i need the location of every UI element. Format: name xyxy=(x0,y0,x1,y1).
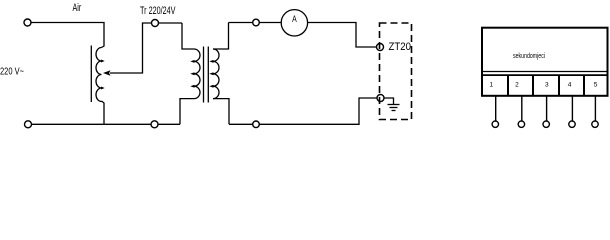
terminal input top xyxy=(24,19,31,26)
terminal cell divider 4|5 xyxy=(583,75,585,96)
stopwatch divider xyxy=(482,71,608,73)
svg-text:2: 2 xyxy=(515,82,519,89)
terminal ZT20 ground xyxy=(377,95,384,102)
terminal secondary bottom xyxy=(253,121,260,128)
svg-text:sekundomjeci: sekundomjeci xyxy=(513,51,545,60)
terminal ZT20 input xyxy=(377,44,384,51)
ZT20 dashed box xyxy=(380,23,412,120)
terminal input bottom xyxy=(25,121,32,128)
transformer Tr primary bottom lead xyxy=(180,99,194,125)
terminal cell divider 1|2 xyxy=(507,75,509,96)
winding cusp curls variac xyxy=(101,60,105,90)
wire ammeter to ZT20 input xyxy=(308,23,377,48)
stem terminal 5 xyxy=(594,96,596,121)
svg-text:Air: Air xyxy=(73,2,82,14)
variac T1 winding xyxy=(96,48,102,102)
ammeter A xyxy=(281,10,307,36)
wire secondary bottom rail xyxy=(229,98,377,124)
winding cusp curls primary xyxy=(190,60,194,88)
transformer Tr secondary winding xyxy=(213,49,219,99)
svg-text:5: 5 xyxy=(594,82,598,89)
wiper arrow head xyxy=(103,70,111,76)
wire secondary top to ammeter xyxy=(229,22,282,24)
stem terminal 1 xyxy=(495,96,497,121)
svg-text:Tr 220/24V: Tr 220/24V xyxy=(140,5,176,17)
variac T1 core xyxy=(90,46,92,103)
terminal cell divider 3|4 xyxy=(558,75,560,96)
terminal strip top line xyxy=(482,74,608,76)
transformer Tr secondary bottom lead xyxy=(213,99,229,125)
wire bottom rail xyxy=(32,123,181,125)
stopwatch box xyxy=(482,28,608,96)
stem terminal 3 xyxy=(546,96,548,121)
wiper tap wire xyxy=(110,23,182,73)
variac bottom lead xyxy=(102,101,105,124)
stem terminal 2 xyxy=(521,96,523,121)
terminal bottom rail mid xyxy=(151,121,158,128)
svg-text:4: 4 xyxy=(568,82,572,89)
terminal secondary top xyxy=(253,19,260,26)
winding cusp curls secondary xyxy=(209,60,213,88)
svg-text:A: A xyxy=(292,14,297,25)
stem terminal 4 xyxy=(571,96,573,121)
transformer Tr primary winding xyxy=(194,49,200,99)
transformer Tr secondary top lead xyxy=(213,23,229,50)
svg-text:220 V~: 220 V~ xyxy=(0,66,24,78)
wire top input to variac xyxy=(31,23,104,48)
svg-text:1: 1 xyxy=(489,82,493,89)
terminal variac output xyxy=(152,20,159,27)
transformer Tr primary top lead xyxy=(182,23,194,49)
transformer Tr core xyxy=(203,47,205,103)
svg-text:3: 3 xyxy=(545,82,549,89)
ground symbol xyxy=(384,98,394,105)
terminal cell divider 2|3 xyxy=(532,75,534,96)
svg-text:ZT20: ZT20 xyxy=(389,41,412,53)
